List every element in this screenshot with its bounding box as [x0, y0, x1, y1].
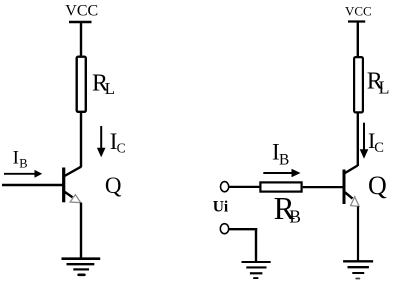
- wire terminal to RB: [229, 186, 260, 188]
- power VCC (right) bar: [348, 20, 365, 22]
- wire base input (left): [2, 184, 64, 187]
- transistor Q1 emitter lead: [65, 192, 73, 198]
- resistor RL (right) body: [354, 57, 363, 112]
- current arrow IB (right): [263, 169, 300, 178]
- svg-text:C: C: [117, 141, 126, 156]
- svg-text:Q: Q: [105, 173, 122, 198]
- input terminal 2 (circle): [220, 224, 228, 234]
- wire VCC to RL (left): [80, 21, 82, 58]
- wire VCC to RL (right): [357, 21, 359, 59]
- wire emitter to ground (left): [80, 203, 82, 258]
- wire RL to collector (right): [357, 113, 359, 167]
- wire terminal2 horizontal: [229, 228, 257, 230]
- current arrow IC (left): [97, 126, 106, 157]
- transistor Q1 emitter arrowhead (hollow): [70, 195, 81, 203]
- current arrow IB (left): [4, 170, 42, 178]
- svg-text:Ui: Ui: [213, 199, 229, 216]
- ground (right transistor emitter): [343, 261, 373, 278]
- svg-text:B: B: [19, 157, 27, 171]
- svg-text:I: I: [13, 148, 19, 169]
- wire terminal2 down to ground: [255, 228, 257, 261]
- input terminal Ui (circle): [221, 182, 229, 192]
- transistor Q2 collector lead: [345, 166, 358, 174]
- svg-text:B: B: [279, 152, 289, 169]
- svg-text:C: C: [374, 140, 384, 156]
- svg-text:L: L: [105, 79, 115, 98]
- svg-text:L: L: [379, 78, 390, 98]
- power VCC (left) bar: [69, 21, 92, 23]
- transistor Q1 collector lead: [65, 167, 82, 176]
- transistor Q2 base bar: [343, 170, 346, 205]
- svg-text:VCC: VCC: [65, 3, 98, 20]
- svg-text:VCC: VCC: [345, 3, 372, 18]
- transistor Q2 emitter lead: [345, 192, 353, 198]
- svg-text:Q: Q: [368, 171, 387, 200]
- wire RB to base: [303, 186, 343, 188]
- ground (left circuit): [62, 259, 101, 275]
- wire RL to collector (left): [80, 112, 82, 167]
- wire emitter to ground (right): [357, 206, 359, 261]
- transistor Q2 emitter arrowhead (hollow): [351, 197, 360, 207]
- current arrow IC (right): [360, 123, 369, 159]
- svg-text:B: B: [289, 207, 301, 227]
- resistor RB body: [260, 182, 301, 191]
- ground (input side): [242, 262, 271, 278]
- transistor Q1 base bar: [62, 168, 65, 203]
- resistor RL (left) body: [77, 57, 86, 112]
